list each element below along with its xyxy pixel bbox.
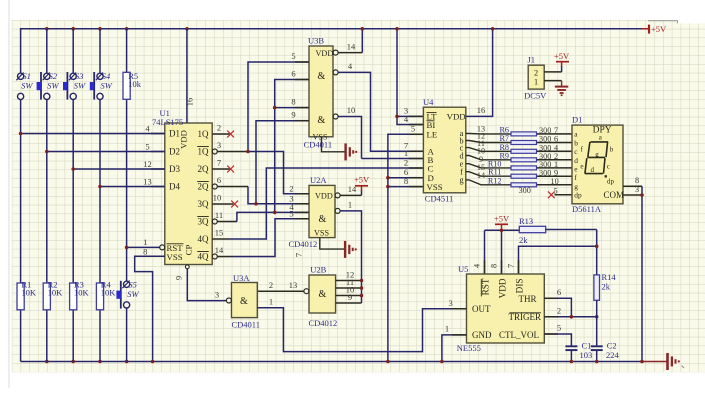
seven segment figure [591,141,609,143]
svg-text:U3B: U3B [308,36,324,46]
resistor R9 300 [466,156,511,160]
pin U1 2Q pin 7 no-connect [212,168,229,170]
pin stubs U1 left [151,133,165,135]
svg-text:D3: D3 [169,164,180,174]
svg-text:2: 2 [217,122,221,132]
resistor R6 300 [466,132,511,135]
svg-text:CD4511: CD4511 [425,194,454,204]
svg-text:2: 2 [269,280,273,290]
svg-text:&: & [319,289,327,300]
svg-text:10: 10 [347,105,356,115]
capacitor C2 224 [591,345,603,347]
wire U3B VSS to ground [322,137,345,152]
pin U3B VDD pin 14 [333,50,338,55]
svg-text:12: 12 [143,159,152,169]
svg-text:2: 2 [534,68,538,77]
svg-text:VDD: VDD [447,112,466,122]
wire R13 to R14 DIS column [546,229,597,231]
ground symbol at U2A [344,241,346,258]
wire switch S2 column [46,29,48,73]
svg-text:11: 11 [215,210,223,220]
pin U3B output 10 to U4.B [333,114,338,119]
svg-text:U2B: U2B [310,265,326,275]
pin U1 4Q-bar pin 14 [212,254,217,259]
svg-text:R14: R14 [602,272,617,282]
IC U2B CD4012 body [309,275,336,313]
svg-text:CTL_VOL: CTL_VOL [499,330,539,340]
svg-text:R7: R7 [499,134,509,143]
svg-text:C: C [428,163,434,173]
svg-text:3: 3 [635,185,639,194]
svg-text:5: 5 [291,51,295,61]
wire D3 input net [73,168,165,170]
IC U3B CD4011 body [309,46,333,137]
svg-text:4Q: 4Q [198,234,210,244]
svg-text:DIS: DIS [514,279,524,294]
wire switch S4 column [99,29,101,73]
svg-text:5: 5 [557,323,561,333]
pin U1 4Q pin 15 [212,238,230,240]
svg-text:1: 1 [348,199,352,209]
svg-text:U3A: U3A [233,273,250,283]
IC U1 74LS175 body [165,123,212,265]
resistor R12 300 [466,180,511,185]
svg-text:&: & [240,296,248,307]
svg-text:U2A: U2A [310,175,327,185]
svg-text:1: 1 [269,297,273,307]
svg-text:3Q: 3Q [198,199,210,209]
svg-text:7: 7 [507,264,516,268]
svg-text:S4: S4 [102,71,111,81]
svg-text:NE555: NE555 [457,343,481,353]
svg-text:16: 16 [477,105,486,115]
wire RST net from S5 column [127,246,160,248]
svg-text:g: g [574,182,578,191]
svg-text:VDD: VDD [315,191,333,200]
svg-text:13: 13 [143,177,152,187]
svg-text:S3: S3 [75,71,84,81]
wire U3B VDD to +5V bus [361,29,363,53]
svg-text:SW: SW [47,81,59,91]
svg-text:+5V: +5V [354,174,370,184]
connector J1 body [528,65,544,89]
pin U2B input 12 [336,280,362,282]
IC U2A CD4012 body [309,185,335,237]
svg-text:10: 10 [551,177,559,186]
pin U3B output 4 to U4.A [333,70,338,75]
svg-text:8: 8 [635,176,639,185]
pin J1.1 to ground [544,80,561,82]
svg-text:4: 4 [473,264,482,268]
wire switch S1 column [20,100,22,283]
svg-text:4Q: 4Q [198,252,210,262]
svg-text:8: 8 [143,247,147,257]
svg-text:CD4012: CD4012 [289,239,318,249]
switch S5 [120,281,122,309]
pin U2A input 4 [295,211,309,213]
pin U1 3Q-bar pin 11 [212,219,217,224]
wire U4 VDD pin 16 to +5V bus [466,29,493,117]
svg-text:1: 1 [445,324,449,334]
svg-text:6: 6 [554,135,558,144]
wire U2A VSS pin 7 to ground [320,238,345,250]
svg-text:VSS: VSS [427,182,443,192]
resistor R10 300 [466,164,511,168]
pin U2A VDD pin 14 to +5V [335,193,340,198]
pin U1 CP pin 9 wire to U3A output [187,265,226,301]
svg-text:6: 6 [557,287,561,297]
svg-text:+5V: +5V [494,214,510,224]
wire U4.B row [362,158,424,160]
switch S3 [66,72,68,100]
svg-text:COM: COM [604,190,625,200]
svg-text:SW: SW [127,289,139,299]
wire R5/S5 column [126,29,128,73]
svg-text:8: 8 [291,97,295,107]
svg-text:VSS: VSS [167,252,183,262]
svg-text:16: 16 [185,98,195,107]
pin D1 COM 8 [623,185,642,187]
pin D1 COM 3 [623,194,642,196]
svg-text:10: 10 [213,192,222,202]
svg-text:+5V: +5V [651,24,667,34]
svg-text:2k: 2k [602,282,611,292]
capacitor C1 103 [565,345,577,347]
svg-text:GND: GND [472,330,492,340]
svg-text:8: 8 [404,176,408,186]
svg-text:14: 14 [477,171,485,180]
svg-text:2: 2 [557,305,561,315]
svg-text:VDD: VDD [497,278,507,298]
pin U2B output 13 [304,289,309,294]
svg-text:300: 300 [519,186,531,195]
svg-text:10K: 10K [101,288,117,298]
svg-text:b: b [574,138,578,147]
svg-text:5: 5 [289,208,293,218]
pin D1 dp no-connect [555,194,573,196]
wire GND bottom bus [21,361,642,363]
svg-text:1: 1 [534,78,538,87]
svg-text:9: 9 [174,276,184,280]
svg-text:8: 8 [490,264,499,268]
svg-text:&: & [318,115,326,126]
pin U2A input 2 [295,193,309,195]
svg-text:b: b [610,146,614,154]
svg-text:15: 15 [215,227,224,237]
pin stubs U4 left [409,115,423,117]
power +5V top right [642,28,650,30]
pin U2A input 5 [295,218,309,220]
svg-text:10K: 10K [48,288,64,298]
svg-text:&: & [318,71,326,82]
IC U5 NE555 body [467,274,545,343]
pin U5 TRIGER pin 2 [544,316,596,318]
resistor R4 10K [96,283,103,310]
svg-text:9: 9 [291,110,295,120]
svg-text:dp: dp [607,178,615,186]
svg-text:VDD: VDD [179,130,189,149]
resistor R14 2k [594,275,600,300]
switch S4 [93,72,95,100]
svg-text:S5: S5 [128,279,137,289]
svg-text:2k: 2k [519,235,528,245]
pin U2A input 3 [295,203,309,205]
svg-text:300: 300 [539,168,551,177]
pin U2B input 9 [336,302,362,304]
resistor R11 300 [466,172,511,177]
ground symbol at U3B [344,143,346,160]
svg-text:LE: LE [427,130,438,140]
svg-text:2: 2 [404,157,408,167]
svg-text:+5V: +5V [554,51,570,61]
svg-text:2: 2 [289,183,293,193]
svg-text:DC5V: DC5V [524,91,547,101]
svg-text:10K: 10K [21,288,37,298]
wire COM to ground bus [641,186,643,361]
svg-text:1Q: 1Q [198,147,210,157]
wire bottom-right ground feed [642,361,667,363]
power +5V at U2A [361,186,363,191]
svg-text:5: 5 [145,142,149,152]
svg-text:SW: SW [74,81,86,91]
power +5V at U5 [501,224,503,229]
svg-text:C2: C2 [607,341,617,351]
svg-text:CP: CP [184,245,194,256]
svg-text:BI: BI [427,120,436,130]
switch S2 [40,72,42,100]
resistor R2 10K [43,283,50,310]
pin U1 1Q-bar pin 3 [212,149,217,154]
svg-text:VSS: VSS [314,228,329,237]
wire DIS pin 7 net [519,246,597,274]
svg-text:D1: D1 [572,115,582,125]
pin U3B input 6 [295,79,309,81]
svg-text:5: 5 [411,124,415,134]
pin U5 GND to ground bus [442,335,467,362]
wire net 4Q-bar to U2A.5 [232,219,309,257]
svg-text:S2: S2 [49,71,58,81]
svg-text:J1: J1 [528,55,536,65]
svg-text:6: 6 [291,69,295,79]
wire net 3Q-bar to U3B.6 U3B.8 and U2A.4 [237,212,309,221]
ground symbol bottom right [666,353,669,370]
svg-text:1Q: 1Q [198,129,210,139]
svg-text:d: d [591,166,595,174]
svg-text:3Q: 3Q [198,217,210,227]
pin U2B input 11 [336,287,362,289]
svg-text:1: 1 [143,237,147,247]
svg-text:dp: dp [574,191,582,200]
resistor R3 10K [70,283,77,310]
resistor R5 10k [123,72,130,99]
svg-text:3: 3 [215,289,219,299]
svg-text:SW: SW [101,81,113,91]
svg-text:300: 300 [539,135,551,144]
svg-text:THR: THR [519,294,537,304]
svg-text:6: 6 [217,175,221,185]
wire switch S3 column [72,29,74,73]
svg-text:74LS175: 74LS175 [152,117,183,127]
pin U3B input 9 [295,120,309,122]
svg-text:RST: RST [480,278,490,295]
wire +5V rail to R13 and U5 [485,229,520,231]
ground symbol at J1 [555,86,568,88]
pin U1 RST bubble pin 1 [160,245,165,250]
svg-text:VSS: VSS [313,133,328,142]
wire D2 input net [47,151,165,153]
svg-text:&: & [319,214,327,225]
svg-text:13: 13 [289,280,298,290]
svg-text:SW: SW [21,81,33,91]
svg-text:g: g [595,151,599,159]
svg-text:7: 7 [217,157,221,167]
svg-text:D4: D4 [169,182,180,192]
IC U4 CD4511 body [423,107,465,193]
switch S1 [18,73,24,79]
wire +5V top bus [21,29,649,74]
resistor R7 300 [466,141,511,143]
svg-text:103: 103 [580,350,593,360]
wire U1 VSS to ground bus [135,256,165,361]
svg-text:9: 9 [348,292,352,302]
svg-text:224: 224 [606,350,620,360]
pin U3A output 3 [226,298,231,303]
svg-text:U4: U4 [423,97,434,107]
svg-text:14: 14 [215,245,224,255]
display D1 DPY D5611A body [572,125,623,204]
svg-text:14: 14 [347,42,356,52]
svg-text:e: e [580,163,583,171]
wire R14 bottom to TRIGER and C2 [596,300,598,346]
wire U4 LE D VSS ground column [388,134,424,361]
resistor R13 2k [519,226,545,232]
svg-text:7: 7 [294,253,304,257]
svg-text:2Q: 2Q [198,164,210,174]
IC U3A CD4011 body [232,283,258,318]
svg-text:5: 5 [554,187,558,196]
svg-text:10K: 10K [74,288,90,298]
wire net 4Q to U4.C [230,168,423,239]
svg-text:C1: C1 [582,341,592,351]
resistor R8 300 [466,148,511,152]
svg-text:10k: 10k [128,79,142,89]
svg-text:CD4011: CD4011 [232,319,261,329]
pin J1.2 to +5V [544,71,561,73]
svg-text:3: 3 [217,140,221,150]
pin U5 CTL_VOL pin 5 [544,334,571,346]
svg-text:D5611A: D5611A [572,204,602,214]
wire D4 input net [100,186,165,188]
svg-text:OUT: OUT [472,304,491,314]
svg-text:S1: S1 [22,71,31,81]
pin U2A output 1 to U2B inputs [335,208,340,213]
svg-text:DPY: DPY [593,126,612,136]
svg-text:TRIGER: TRIGER [509,312,542,322]
pin U2B input 10 [336,295,362,297]
svg-text:VDD: VDD [316,49,334,58]
svg-text:U5: U5 [458,264,468,274]
svg-text:2Q: 2Q [198,182,210,192]
pin U1 3Q pin 10 no-connect [212,203,233,205]
svg-text:3: 3 [448,298,452,308]
svg-text:g: g [459,176,463,185]
wire +5V to U4 LT BI [397,29,423,125]
wire net 1Q-bar to U3B.5 and U2A.2 [248,62,309,152]
resistor R1 10K [17,283,24,310]
svg-text:R13: R13 [519,216,533,226]
pin U3B input 5 [295,61,309,63]
pin U1 1Q pin 2 no-connect [212,133,229,135]
wire net 2Q-bar to U3B.9 and U2A.3 [248,187,309,204]
wire D1 input net [21,133,165,135]
pin U5 THR pin 6 [544,298,571,317]
power +5V at J1 [561,62,563,67]
pin U3A input 1 wire to 555 OUT [257,308,466,352]
svg-text:R12: R12 [488,176,502,185]
wire U1 VDD supply column pin 16 [186,29,188,123]
svg-text:d: d [574,156,578,165]
pin U3B input 8 [295,107,309,109]
svg-text:CD4012: CD4012 [309,318,338,328]
svg-text:c: c [607,163,610,171]
pin U1 2Q-bar pin 6 [212,184,217,189]
